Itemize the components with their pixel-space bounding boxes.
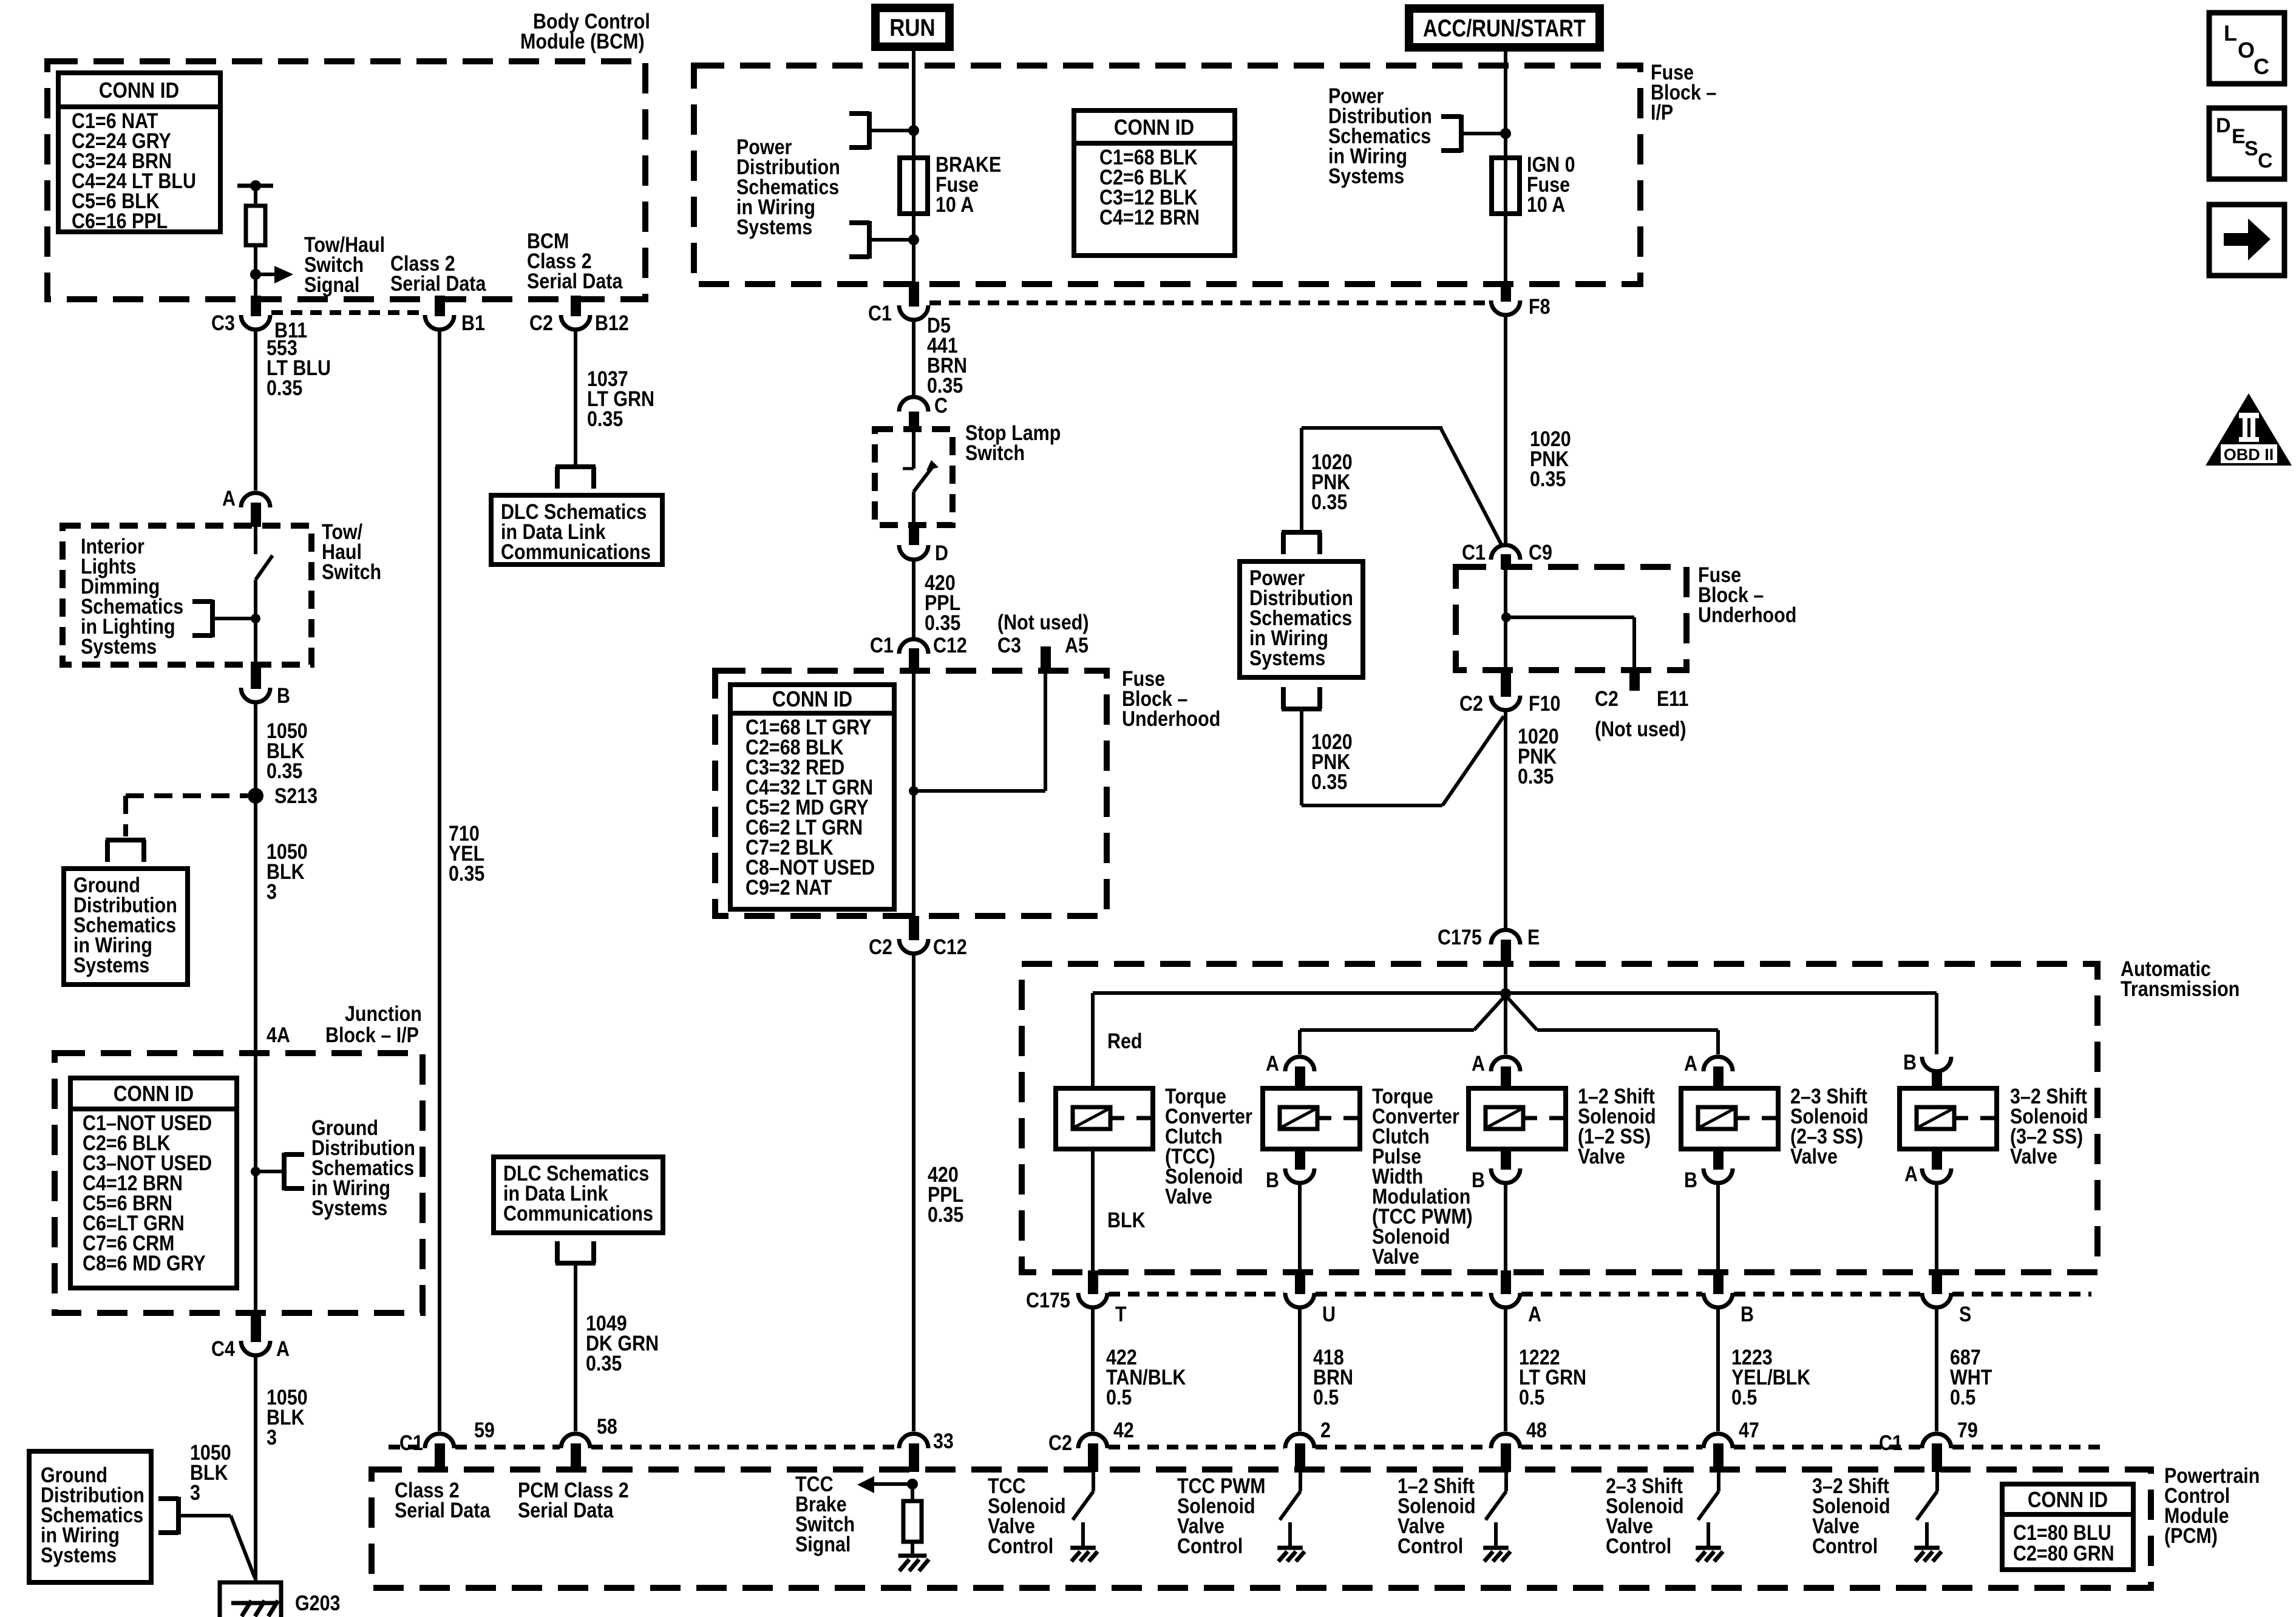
stub A (1-2 SS) <box>1501 1066 1511 1088</box>
svg-text:Valve: Valve <box>1790 1144 1838 1168</box>
solenoid TCC PWM solenoid valve <box>1263 1088 1360 1149</box>
svg-text:33: 33 <box>933 1429 954 1453</box>
stub A (TCC PWM) <box>1295 1066 1305 1088</box>
bracket above power distribution box (ACC) <box>1282 532 1322 554</box>
CONN ID table (BCM) <box>58 73 220 232</box>
svg-text:C12: C12 <box>933 633 967 657</box>
CONN ID table (junction block) <box>70 1078 237 1288</box>
Fuse Block - I/P dashed box <box>694 66 1640 284</box>
CONN ID table (fuse block I/P) <box>1074 110 1235 256</box>
fuse IGN 0 10 A <box>1492 158 1520 214</box>
arrow TCC brake switch signal <box>857 1476 912 1493</box>
bracket to interior lights dimming schematics <box>192 600 212 637</box>
svg-text:0.35: 0.35 <box>267 759 302 782</box>
svg-text:B: B <box>1472 1168 1485 1192</box>
connector 59 cup <box>425 1434 454 1448</box>
svg-text:CONN ID: CONN ID <box>99 78 179 103</box>
connector A cup (3-2 SS) <box>1922 1168 1951 1183</box>
connector C stub <box>909 412 919 432</box>
connector C2/C12 stub <box>909 916 919 940</box>
wire 710 YEL (B1 to PCM 59) <box>438 330 441 1431</box>
svg-text:Valve: Valve <box>2010 1144 2057 1168</box>
svg-text:0.5: 0.5 <box>1313 1385 1339 1409</box>
connector B cup (3-2 SS) <box>1922 1057 1951 1071</box>
connector C1 (D5) cup <box>899 305 928 320</box>
svg-text:Systems: Systems <box>736 215 812 239</box>
svg-text:CONN ID: CONN ID <box>1114 115 1194 140</box>
connector B stub (tow/haul) <box>251 662 261 689</box>
connector 79 stub <box>1932 1443 1942 1472</box>
wire resistor to ground <box>911 1542 914 1556</box>
svg-text:0.35: 0.35 <box>928 1202 963 1226</box>
connector C175/U stub <box>1295 1270 1305 1294</box>
bracket below DLC schematics (bottom) <box>555 1241 596 1263</box>
svg-text:Module (BCM): Module (BCM) <box>520 29 645 53</box>
ref box DLC Schematics in Data Link Communications (top) <box>491 495 662 564</box>
svg-text:CONN ID: CONN ID <box>2028 1488 2108 1513</box>
connector C175/S stub <box>1932 1270 1942 1294</box>
ignition key box ACC/RUN/START <box>1405 4 1604 52</box>
OBD II triangle <box>2206 393 2292 466</box>
Fuse Block - Underhood dashed box (stop lamp) <box>715 671 1107 916</box>
wire 1037 LT GRN (B12) <box>574 330 577 465</box>
svg-text:OBD II: OBD II <box>2224 446 2274 464</box>
svg-text:C2: C2 <box>869 935 892 958</box>
node junction with arrow <box>250 269 261 280</box>
solenoid 3-2 shift solenoid valve <box>1900 1088 1997 1149</box>
svg-text:10 A: 10 A <box>936 192 974 216</box>
svg-text:O: O <box>2238 38 2255 63</box>
feed wire lower left with diagonal <box>1300 995 1506 1054</box>
ref box Ground Distribution Schematics in Wiring Systems (S213) <box>64 869 188 985</box>
svg-text:3: 3 <box>190 1480 200 1504</box>
svg-text:Control: Control <box>1398 1534 1463 1558</box>
svg-text:C1: C1 <box>1879 1431 1903 1454</box>
wire C12 through underhood box <box>912 654 915 923</box>
stop lamp switch contact upper <box>912 432 915 469</box>
wire node to brake fuse <box>912 131 915 159</box>
wire RUN to fuse block <box>912 51 915 131</box>
svg-text:Valve: Valve <box>1578 1144 1625 1168</box>
wire bracket to G203 <box>178 1516 255 1578</box>
wire junction to connector C3 <box>254 274 257 303</box>
svg-text:U: U <box>1322 1302 1336 1326</box>
Tow/Haul Switch dashed box <box>63 526 311 665</box>
svg-text:47: 47 <box>1739 1418 1759 1442</box>
svg-text:59: 59 <box>474 1418 495 1442</box>
svg-text:BLK: BLK <box>1107 1208 1146 1232</box>
svg-text:C: C <box>2254 54 2269 79</box>
dotted connector line PCM C1 right <box>1734 1445 1921 1449</box>
feed wire to 1-2 solenoid <box>1504 994 1507 1054</box>
connector 48 cup <box>1491 1434 1520 1448</box>
svg-text:C175: C175 <box>1026 1288 1070 1312</box>
svg-text:0.5: 0.5 <box>1106 1385 1132 1409</box>
connector F8 cup <box>1491 300 1520 315</box>
connector F8 stub <box>1501 282 1511 302</box>
wire bracket to node (brake bottom) <box>869 238 914 242</box>
connector B cup (2-3 SS) <box>1703 1168 1733 1183</box>
ground stem (TCC) <box>1081 1522 1085 1548</box>
connector C2/B12 stub <box>571 296 581 316</box>
wire bracket to switch <box>212 617 256 620</box>
Powertrain Control Module dashed box <box>372 1470 2151 1588</box>
svg-text:F10: F10 <box>1529 691 1560 715</box>
solenoid TCC solenoid valve <box>1056 1088 1153 1149</box>
wire 418 BRN <box>1298 1307 1302 1431</box>
svg-text:Systems: Systems <box>1328 164 1404 188</box>
svg-text:C1: C1 <box>1462 540 1486 564</box>
wire branch to power distribution (C9) <box>1302 428 1501 544</box>
connector 58 cup <box>561 1434 590 1448</box>
svg-text:B: B <box>1741 1302 1754 1326</box>
Fuse Block - Underhood dashed box (IGN) <box>1456 567 1686 670</box>
node brake fuse bottom <box>908 234 919 245</box>
connector A cup (TCC PWM) <box>1285 1057 1314 1071</box>
dotted connector line C175 <box>1109 1292 1284 1297</box>
connector C175/B cup <box>1703 1293 1733 1307</box>
svg-text:C2: C2 <box>1459 691 1483 715</box>
svg-text:T: T <box>1115 1302 1127 1326</box>
feed wire upper horizontal <box>1093 993 1937 1088</box>
svg-text:42: 42 <box>1113 1418 1134 1442</box>
svg-text:A: A <box>1684 1051 1697 1075</box>
node tow/haul switch pole <box>251 614 260 623</box>
svg-text:A: A <box>1472 1051 1485 1075</box>
svg-text:Systems: Systems <box>81 634 157 658</box>
dotted connector line PCM C1 left <box>389 1445 424 1449</box>
resistor (PCM brake signal) <box>903 1501 922 1542</box>
svg-text:Control: Control <box>1812 1534 1878 1558</box>
connector B1 stub <box>435 296 445 316</box>
wire TCC PWM to C175 <box>1298 1183 1302 1270</box>
svg-text:C9: C9 <box>1529 540 1552 564</box>
svg-text:48: 48 <box>1526 1418 1547 1442</box>
connector 79 cup <box>1922 1434 1951 1448</box>
svg-text:C4: C4 <box>211 1337 236 1360</box>
connector C2/C12 cup <box>899 939 928 954</box>
svg-text:I/P: I/P <box>1651 100 1673 124</box>
ground stem (TCC PWM) <box>1288 1522 1292 1548</box>
connector A cup (tow/haul switch) <box>241 493 270 507</box>
stop lamp switch blade <box>914 460 939 523</box>
Junction Block - I/P dashed box <box>55 1053 423 1313</box>
resistor R (tow/haul switch signal) <box>246 206 265 245</box>
svg-text:C6=16 PPL: C6=16 PPL <box>72 209 168 232</box>
stub A (2-3 SS) <box>1713 1066 1724 1088</box>
feed wire lower right with diagonal <box>1506 995 1718 1054</box>
svg-text:S: S <box>1959 1302 1971 1326</box>
wire branch power distribution to F10 <box>1302 709 1504 805</box>
svg-text:C8=6 MD GRY: C8=6 MD GRY <box>83 1251 206 1275</box>
svg-text:(PCM): (PCM) <box>2164 1524 2218 1547</box>
wire 420 PPL (upper) <box>912 560 915 637</box>
connector B cup (TCC PWM) <box>1285 1168 1314 1183</box>
ref box Power Distribution Schematics in Wiring Systems (ACC) <box>1240 561 1363 677</box>
svg-text:S: S <box>2244 137 2258 160</box>
svg-text:A: A <box>222 486 236 510</box>
bracket below power distribution box (ACC) <box>1282 687 1322 709</box>
connector C2/F10 cup <box>1491 696 1520 710</box>
ground (TCC) <box>1070 1548 1098 1561</box>
svg-text:0.5: 0.5 <box>1731 1385 1757 1409</box>
connector 2 stub <box>1295 1443 1305 1472</box>
node solenoid feed junction <box>1500 988 1511 999</box>
OBD II label band <box>2221 444 2277 464</box>
svg-text:Serial Data: Serial Data <box>527 269 623 293</box>
wire C9 to F10 <box>1504 569 1507 670</box>
wire 1050 BLK 3 (to G203) <box>254 1355 257 1582</box>
fuse BRAKE 10 A <box>900 158 928 214</box>
connector C1/C12 cup <box>899 639 928 654</box>
svg-text:C2=80 GRN: C2=80 GRN <box>2013 1541 2114 1565</box>
svg-text:CONN ID: CONN ID <box>114 1082 194 1107</box>
svg-text:C175: C175 <box>1438 925 1482 949</box>
connector A cup (2-3 SS) <box>1703 1057 1733 1071</box>
svg-text:0.35: 0.35 <box>1518 764 1554 788</box>
Stop Lamp Switch dashed box <box>875 429 953 525</box>
svg-text:Transmission: Transmission <box>2121 977 2240 1000</box>
connector C175/T stub <box>1088 1270 1098 1294</box>
connector D cup <box>899 545 928 560</box>
svg-text:(Not used): (Not used) <box>1595 717 1686 741</box>
Automatic Transmission dashed box <box>1022 964 2097 1272</box>
connector 33 stub <box>909 1443 919 1472</box>
wire brake fuse to node <box>912 214 915 240</box>
ignition key box RUN <box>871 4 954 51</box>
svg-text:Switch: Switch <box>965 441 1025 464</box>
svg-text:RUN: RUN <box>889 14 935 41</box>
node junction block ground tap <box>251 1167 260 1176</box>
solenoid 1-2 shift solenoid valve <box>1469 1088 1566 1149</box>
stop lamp switch tick <box>903 467 914 470</box>
ground G203 symbol <box>231 1601 278 1616</box>
svg-text:C3: C3 <box>211 311 235 334</box>
ground stem (1–2 Shift) <box>1494 1522 1498 1548</box>
connector A cup (1-2 SS) <box>1491 1057 1520 1071</box>
connector C175/S cup <box>1922 1293 1951 1307</box>
node S213 splice <box>248 788 263 804</box>
svg-text:C1: C1 <box>399 1431 423 1454</box>
ref box DLC Schematics in Data Link Communications (bottom) <box>494 1157 663 1233</box>
svg-text:Serial Data: Serial Data <box>390 271 486 295</box>
svg-text:A: A <box>276 1337 290 1360</box>
svg-text:Systems: Systems <box>311 1196 387 1219</box>
node underhood E11 branch <box>1501 612 1511 622</box>
svg-text:C: C <box>2258 149 2273 172</box>
CONN ID table (underhood) <box>730 685 894 909</box>
wire E into transmission <box>1504 966 1507 994</box>
wire bracket to node (IGN top) <box>1461 132 1506 135</box>
svg-text:B12: B12 <box>595 311 629 334</box>
connector C175/B stub <box>1713 1270 1724 1294</box>
stub B (1-2 SS) <box>1501 1149 1511 1170</box>
node C12 jog <box>909 786 919 796</box>
svg-text:Block – I/P: Block – I/P <box>325 1023 419 1046</box>
svg-text:D: D <box>2216 114 2231 137</box>
svg-text:S213: S213 <box>274 784 318 807</box>
svg-text:Systems: Systems <box>1249 646 1325 670</box>
dotted connector line C1-F8 <box>929 300 1490 305</box>
ground stem (3–2 Shift) <box>1925 1522 1929 1548</box>
connector C175/U cup <box>1285 1293 1314 1307</box>
wire 1050 BLK 3 (S213 to junction block) <box>254 796 257 1053</box>
stub A (3-2 SS) <box>1932 1149 1942 1170</box>
wire through junction block <box>254 1053 257 1313</box>
wire jog to A5 <box>914 673 1045 791</box>
wire 1223 YEL/BLK <box>1716 1307 1720 1431</box>
node TCC brake switch signal <box>907 1479 918 1490</box>
connector 42 cup <box>1078 1434 1107 1448</box>
wire 1049 DK GRN <box>574 1263 577 1431</box>
svg-text:0.35: 0.35 <box>449 861 484 885</box>
wire TCC solenoid lower (BLK) <box>1091 1149 1095 1270</box>
connector 48 stub <box>1501 1443 1511 1472</box>
svg-text:79: 79 <box>1957 1418 1978 1442</box>
LOC icon box <box>2209 13 2284 84</box>
wire 1222 LT GRN <box>1504 1307 1507 1431</box>
connector 59 stub <box>435 1443 445 1472</box>
switch driver (TCC) <box>1073 1472 1093 1520</box>
wire to bracket (ground distribution) <box>256 1170 284 1173</box>
svg-text:C2: C2 <box>1048 1431 1072 1454</box>
switch driver (TCC PWM) <box>1280 1472 1300 1520</box>
svg-text:G203: G203 <box>295 1591 340 1615</box>
ground (3–2 Shift) <box>1914 1548 1941 1561</box>
svg-text:C1: C1 <box>868 301 892 325</box>
dotted connector line PCM C2 <box>1109 1445 1284 1449</box>
svg-text:Switch: Switch <box>322 560 381 583</box>
wire resistor to junction <box>254 245 257 274</box>
svg-text:10 A: 10 A <box>1527 192 1565 216</box>
wire node to resistor <box>911 1484 914 1501</box>
stub E11 <box>1629 670 1640 691</box>
svg-text:C2: C2 <box>1595 686 1618 710</box>
connector C175/E stub <box>1501 940 1511 966</box>
svg-text:0.35: 0.35 <box>1311 490 1347 514</box>
svg-text:Signal: Signal <box>795 1532 851 1556</box>
svg-text:C3: C3 <box>997 633 1021 657</box>
arrow icon box <box>2209 205 2284 276</box>
bracket power distribution (brake fuse top) <box>849 112 869 149</box>
Body Control Module (BCM) dashed box <box>47 61 645 299</box>
svg-text:Serial Data: Serial Data <box>395 1498 491 1522</box>
svg-text:3: 3 <box>267 880 277 903</box>
connector C4/A cup <box>241 1341 270 1355</box>
svg-text:Systems: Systems <box>73 953 149 977</box>
connector C3/B11 cup <box>241 315 270 330</box>
solenoid 2-3 shift solenoid valve <box>1681 1088 1778 1149</box>
wire branch to E11 <box>1506 617 1634 670</box>
svg-text:Valve: Valve <box>1165 1184 1212 1208</box>
wire 3-2 SS to C175 <box>1935 1183 1938 1270</box>
connector C175/A cup <box>1491 1293 1520 1307</box>
ground (1–2 Shift) <box>1483 1548 1510 1561</box>
bracket power distribution (brake fuse bottom) <box>849 221 869 259</box>
svg-text:Control: Control <box>988 1534 1053 1558</box>
switch driver (3–2 Shift) <box>1917 1472 1937 1520</box>
connector C175/T cup <box>1078 1293 1107 1307</box>
svg-text:C4=12 BRN: C4=12 BRN <box>1099 205 1200 229</box>
svg-text:E11: E11 <box>1657 686 1688 710</box>
connector 58 stub <box>571 1443 581 1472</box>
OBD II pillar <box>2239 413 2259 442</box>
svg-text:0.35: 0.35 <box>586 1351 622 1375</box>
connector C2/B12 cup <box>561 315 590 330</box>
DESC icon box <box>2209 108 2284 179</box>
tow/haul switch contact upper <box>254 527 257 554</box>
svg-text:A: A <box>1266 1051 1279 1075</box>
connector B1 cup <box>425 315 454 330</box>
stub B (TCC PWM) <box>1295 1149 1305 1170</box>
ref box Ground Distribution Schematics in Wiring Systems (G203) <box>29 1451 151 1582</box>
connector C1/C9 cup <box>1491 545 1520 560</box>
bracket to ground distribution schematics (junction block) <box>284 1153 304 1190</box>
connector C175/E cup <box>1491 930 1520 944</box>
wire 2-3 SS to C175 <box>1716 1183 1720 1270</box>
ground (PCM brake signal) <box>898 1556 929 1571</box>
connector 47 cup <box>1703 1434 1733 1448</box>
bracket to DLC schematics (top) <box>555 467 596 489</box>
ground (TCC PWM) <box>1277 1548 1305 1561</box>
svg-text:C9=2 NAT: C9=2 NAT <box>746 875 832 899</box>
ground stem (2–3 Shift) <box>1707 1522 1710 1548</box>
connector C175/A stub <box>1501 1270 1511 1294</box>
svg-text:B: B <box>1266 1168 1279 1192</box>
connector C1/C12 stub <box>909 648 919 674</box>
svg-text:B: B <box>1684 1168 1697 1192</box>
connector D stub <box>909 522 919 545</box>
wire 553 LT BLU <box>254 330 257 490</box>
svg-text:A: A <box>1528 1302 1541 1326</box>
node at top of tow/haul signal resistor <box>250 180 261 191</box>
connector 2 cup <box>1285 1434 1314 1448</box>
dashed branch from S213 <box>126 796 248 836</box>
svg-text:B1: B1 <box>461 311 485 334</box>
connector 33 cup <box>899 1434 928 1448</box>
tow/haul switch blade <box>256 555 273 665</box>
bracket to ground distribution schematics (S213) <box>106 840 146 862</box>
svg-text:0.35: 0.35 <box>587 407 623 430</box>
svg-text:B: B <box>277 683 290 707</box>
connector C4/A stub <box>251 1313 261 1342</box>
stub B (3-2 SS) <box>1932 1070 1942 1088</box>
connector 42 stub <box>1088 1443 1098 1472</box>
switch driver (2–3 Shift) <box>1698 1472 1719 1520</box>
connector C cup <box>899 397 928 412</box>
stub A5 <box>1041 646 1051 674</box>
bracket power distribution (IGN fuse) <box>1441 115 1461 152</box>
svg-text:Serial Data: Serial Data <box>518 1498 614 1522</box>
wire from bar to resistor <box>254 186 257 207</box>
svg-text:Communications: Communications <box>503 1201 653 1225</box>
wire ACC to fuse block <box>1504 52 1507 134</box>
svg-text:58: 58 <box>597 1414 617 1438</box>
svg-text:B: B <box>1903 1050 1917 1074</box>
svg-text:Control: Control <box>1177 1534 1243 1558</box>
wire IGN fuse to F8 <box>1504 214 1507 286</box>
wire D5 441 BRN <box>912 320 915 398</box>
wire 1020 PNK (F8 to C9) <box>1504 315 1507 543</box>
ground (2–3 Shift) <box>1696 1548 1723 1561</box>
svg-text:E: E <box>2232 125 2246 148</box>
switch driver (1–2 Shift) <box>1486 1472 1506 1520</box>
svg-text:E: E <box>1527 925 1540 949</box>
dotted connector interface line C3-B1 <box>271 310 424 315</box>
svg-text:0.5: 0.5 <box>1950 1385 1975 1409</box>
svg-text:3: 3 <box>267 1425 277 1449</box>
wire 687 WHT <box>1935 1307 1938 1431</box>
